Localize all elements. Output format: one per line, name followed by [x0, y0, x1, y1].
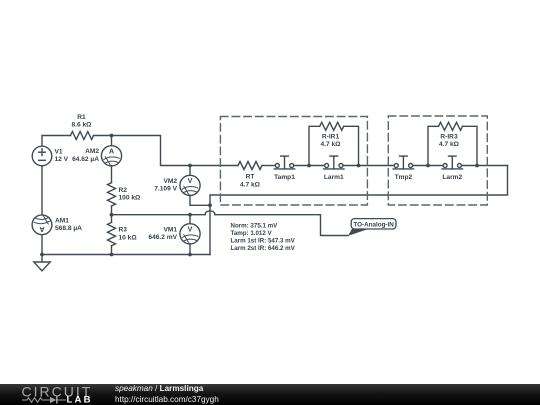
svg-text:646.2 mV: 646.2 mV: [148, 234, 177, 241]
svg-text:Larm1: Larm1: [324, 174, 344, 181]
wire Tmp2 to Larm2: [413, 165, 444, 167]
resistor R3: [108, 222, 116, 245]
wire AM1 to ground rail: [41, 235, 43, 255]
node VM1 bottom: [188, 253, 192, 257]
node ground junction: [40, 253, 44, 257]
wire hop over vertical: [205, 211, 215, 215]
svg-text:R-IR1: R-IR1: [322, 134, 340, 141]
node R3 bottom: [110, 253, 114, 257]
wire Larm2 east: [462, 165, 508, 167]
node junction above AM2: [110, 134, 114, 138]
svg-text:V1: V1: [55, 148, 63, 155]
svg-text:AM2: AM2: [85, 148, 99, 155]
svg-text:R2: R2: [119, 187, 128, 194]
node R-IR1 right: [357, 164, 361, 168]
svg-text:4.7 kΩ: 4.7 kΩ: [439, 141, 460, 148]
wire to analog-in flag: [215, 215, 348, 236]
switch Larm2: [442, 156, 462, 169]
svg-text:Larm 2st IR: 646.2 mV: Larm 2st IR: 646.2 mV: [231, 245, 296, 252]
wire VM2 top lead: [189, 166, 191, 176]
note measurement values: [231, 223, 296, 253]
svg-text:LAB: LAB: [67, 395, 93, 405]
node return/VM2 junction: [208, 203, 212, 207]
annotation dashed box 2: [388, 116, 487, 205]
wire Larm1 to Tmp2: [343, 165, 394, 167]
svg-text:V: V: [188, 176, 193, 185]
node R-IR3 left: [426, 164, 430, 168]
svg-text:Norm: 375.1 mV: Norm: 375.1 mV: [231, 223, 279, 230]
footer bar: [0, 384, 540, 405]
resistor R2: [108, 183, 116, 206]
node R2/R3 junction: [110, 213, 114, 217]
node R-IR1 left: [307, 164, 311, 168]
svg-text:64.62 µA: 64.62 µA: [72, 156, 99, 163]
wire VM1 top lead: [189, 215, 191, 224]
svg-text:Larm2: Larm2: [442, 174, 462, 181]
svg-text:Tmp2: Tmp2: [395, 174, 413, 181]
svg-text:A: A: [109, 147, 114, 156]
node VM1 tap: [188, 213, 192, 217]
node VM2 tap: [188, 164, 192, 168]
wire R3 to bottom rail: [111, 246, 113, 255]
wire AM2 top lead: [111, 136, 113, 146]
resistor RT: [238, 162, 262, 170]
svg-text:7.109 V: 7.109 V: [154, 186, 177, 193]
wire VM2 bottom to vertical node: [190, 196, 210, 206]
annotation dashed box 1: [220, 117, 367, 206]
svg-text:4.7 kΩ: 4.7 kΩ: [321, 141, 342, 148]
svg-text:VM2: VM2: [163, 178, 177, 185]
wire bottom rail: [42, 254, 210, 256]
resistor R-IR1 parallel branch: [309, 122, 359, 165]
wire mid rail to RT: [190, 165, 238, 167]
switch Larm1: [324, 156, 344, 169]
wire Tamp1 to Larm1: [294, 165, 325, 167]
wire top rail from R1 to step-down corner: [94, 136, 191, 166]
svg-text:R-IR3: R-IR3: [440, 134, 458, 141]
wire AM2 to R2: [111, 166, 113, 183]
svg-text:V: V: [188, 225, 193, 234]
svg-text:A: A: [39, 225, 44, 234]
svg-text:Tamp1: Tamp1: [274, 174, 295, 181]
svg-text:8.6 kΩ: 8.6 kΩ: [72, 122, 93, 129]
wire top rail left from V1 to R1: [42, 136, 71, 147]
voltage source V1: [32, 146, 52, 166]
flag TO-Analog-IN: [348, 219, 396, 236]
voltmeter VM1: [180, 224, 200, 244]
svg-text:12 V: 12 V: [55, 156, 69, 163]
svg-text:R3: R3: [119, 227, 128, 234]
CircuitLab logo: [0, 384, 110, 405]
svg-text:Larm 1st IR: 547.3 mV: Larm 1st IR: 547.3 mV: [231, 238, 296, 245]
wire mid-tap rail R2/R3 junction east: [112, 214, 206, 216]
switch Tmp2: [393, 156, 413, 169]
wire return from Larm2 loop down: [210, 166, 508, 255]
resistor R1: [71, 132, 94, 140]
svg-text:VM1: VM1: [163, 226, 177, 233]
svg-text:100 kΩ: 100 kΩ: [119, 195, 142, 202]
voltmeter VM2: [180, 175, 200, 195]
ground: [34, 255, 50, 271]
switch Tamp1: [274, 156, 294, 169]
svg-text:4.7 kΩ: 4.7 kΩ: [240, 181, 261, 188]
svg-text:Tamp: 1.012 V: Tamp: 1.012 V: [231, 230, 273, 237]
svg-text:10 kΩ: 10 kΩ: [119, 234, 138, 241]
wire V1 to AM1: [41, 166, 43, 215]
svg-text:R1: R1: [77, 114, 86, 121]
svg-text:568.8 µA: 568.8 µA: [55, 225, 82, 232]
wire RT to Tamp1: [262, 165, 275, 167]
resistor R-IR3 parallel branch: [428, 122, 477, 165]
wire R2 to R3: [111, 206, 113, 222]
ammeter AM2: [101, 146, 121, 166]
wire VM1 bottom lead: [189, 244, 191, 255]
svg-text:TO-Analog-IN: TO-Analog-IN: [353, 221, 394, 228]
node R-IR3 right: [475, 164, 479, 168]
svg-text:RT: RT: [246, 174, 255, 181]
svg-text:AM1: AM1: [55, 217, 69, 224]
ammeter AM1 (rotated): [32, 215, 52, 235]
